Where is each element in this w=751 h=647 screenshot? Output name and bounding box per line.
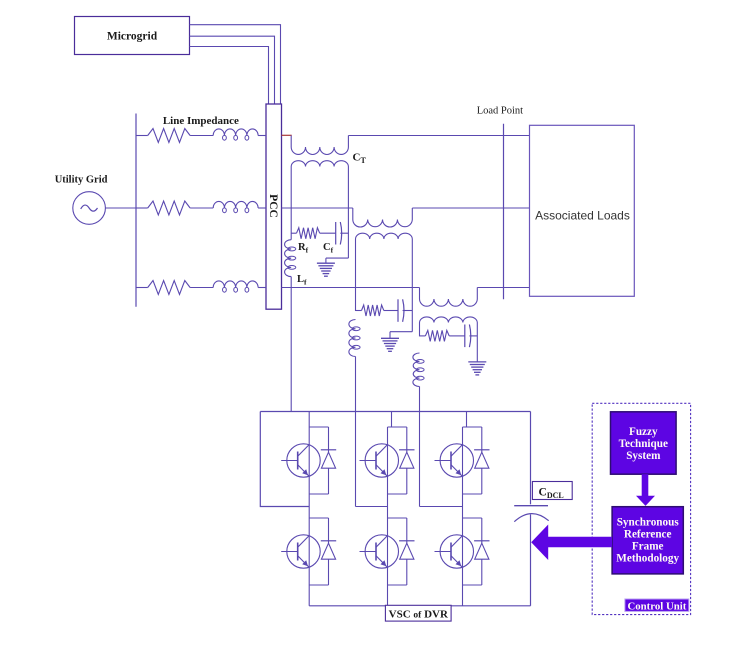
svg-text:Synchronous: Synchronous: [617, 517, 680, 529]
svg-text:Reference: Reference: [624, 529, 672, 541]
svg-text:VSC of DVR: VSC of DVR: [389, 609, 449, 621]
svg-text:Line Impedance: Line Impedance: [163, 115, 239, 127]
svg-text:Methodology: Methodology: [616, 553, 679, 565]
svg-text:Microgrid: Microgrid: [107, 31, 158, 43]
svg-text:Control Unit: Control Unit: [627, 600, 686, 612]
svg-text:System: System: [626, 450, 661, 462]
svg-text:Load Point: Load Point: [477, 106, 523, 117]
svg-text:Utility Grid: Utility Grid: [55, 175, 108, 186]
svg-text:Technique: Technique: [619, 438, 668, 450]
svg-text:Associated Loads: Associated Loads: [535, 209, 630, 223]
svg-text:PCC: PCC: [267, 194, 279, 218]
svg-text:Frame: Frame: [632, 541, 664, 553]
svg-text:Fuzzy: Fuzzy: [629, 426, 658, 438]
